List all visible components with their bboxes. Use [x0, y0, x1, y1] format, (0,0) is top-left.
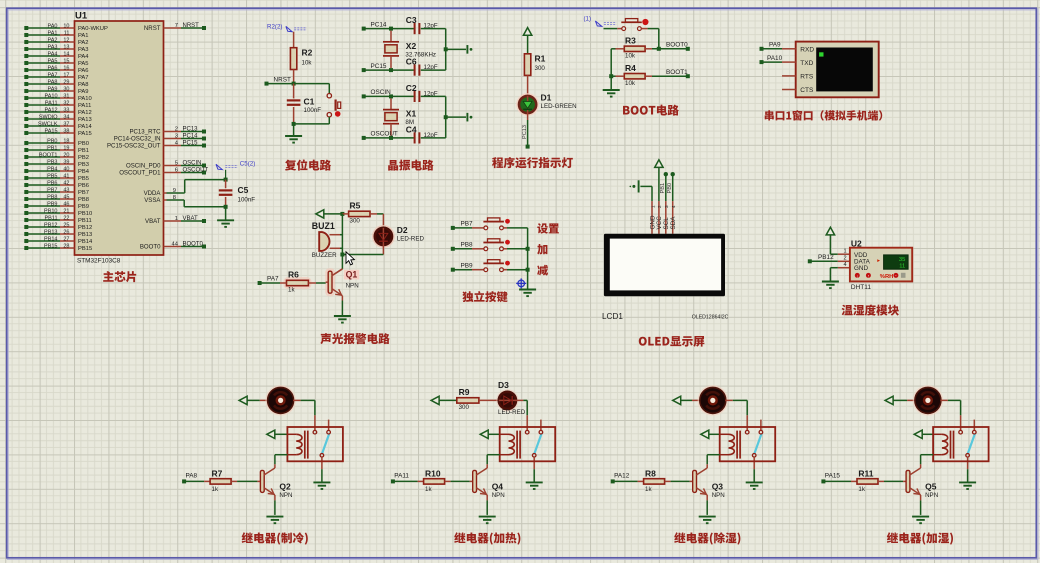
wire C5 top pin	[225, 180, 227, 189]
resistor R2	[290, 48, 296, 70]
svg-text:1k: 1k	[425, 486, 432, 493]
serial cursor	[819, 52, 823, 56]
key button PB9	[484, 268, 488, 272]
svg-text:PA0: PA0	[48, 23, 58, 29]
svg-text:PB8: PB8	[47, 194, 57, 200]
svg-text:OSCIN_PD0: OSCIN_PD0	[126, 163, 161, 170]
pin PA1 wire/label (pin 11)	[24, 33, 28, 37]
svg-text:PC14-OSC32_IN: PC14-OSC32_IN	[114, 136, 161, 143]
resistor R4	[624, 74, 645, 79]
ground below C1	[285, 135, 302, 137]
wire R10 to Q4 base	[445, 480, 451, 482]
svg-text:22: 22	[63, 215, 69, 221]
svg-text:PB3: PB3	[78, 162, 89, 168]
svg-text:NPN: NPN	[279, 492, 292, 499]
svg-text:10k: 10k	[302, 60, 313, 67]
svg-text:Q3: Q3	[712, 481, 724, 491]
power arrow Q4 coil row	[480, 430, 488, 438]
BOOT button	[622, 27, 626, 31]
svg-text:PB1: PB1	[660, 183, 666, 194]
wire C5 to ground	[225, 207, 227, 220]
svg-text:PB0: PB0	[78, 141, 89, 147]
pin NRST wire/label (pin 7)	[164, 27, 182, 29]
DHT button down	[866, 273, 871, 278]
svg-text:TXD: TXD	[800, 60, 813, 67]
title 程序运行指示灯	[492, 157, 573, 168]
wire motor to relay Q5	[940, 399, 948, 401]
svg-text:PB1: PB1	[47, 145, 57, 151]
svg-text:PA9: PA9	[78, 89, 89, 95]
svg-text:STM32F103C8: STM32F103C8	[77, 258, 121, 265]
svg-text:PA7: PA7	[48, 72, 58, 78]
wire probe to button	[604, 28, 618, 30]
ground below Q1	[334, 315, 351, 317]
svg-text:PB9: PB9	[47, 201, 57, 207]
svg-text:300: 300	[350, 217, 361, 224]
key function label 减	[537, 265, 548, 276]
svg-text:PB12: PB12	[44, 222, 57, 228]
pin PB1 wire/label (pin 19)	[24, 148, 28, 152]
svg-text:PB0: PB0	[47, 138, 57, 144]
wire alarm vertical rail	[341, 214, 343, 269]
node keys rail PB9	[526, 268, 530, 272]
wire button PB8 to rail	[504, 248, 507, 250]
wire PA7 to R6	[258, 281, 262, 285]
capacitor C1	[287, 99, 301, 101]
wire button to BOOT0 rail	[641, 28, 647, 30]
svg-text:U1: U1	[75, 11, 88, 22]
terminal PC13	[526, 145, 530, 149]
transistor Q1 highlight glow	[326, 269, 333, 295]
svg-text:BOOT0: BOOT0	[183, 242, 204, 248]
relay (继电器(制冷))	[314, 415, 316, 430]
svg-text:15: 15	[63, 58, 69, 64]
node X2 bottom junction	[389, 68, 393, 72]
wire D3 to relay	[516, 399, 523, 401]
ground DHT11	[822, 281, 839, 283]
pin VSSA wire (pin 8)	[164, 199, 167, 201]
svg-text:BOOT1: BOOT1	[666, 69, 688, 76]
svg-text:OLED12864I2C: OLED12864I2C	[692, 314, 729, 320]
wire R11 to Q5 base	[878, 480, 884, 482]
node X2 rail tee	[444, 47, 448, 51]
pin PC15 wire/label (pin 4)	[164, 145, 182, 147]
power arrow above R1	[523, 28, 531, 36]
crystal X1	[390, 98, 392, 109]
svg-text:BOOT0: BOOT0	[666, 42, 688, 49]
svg-text:18: 18	[63, 138, 69, 144]
wire D1 to PC13 terminal	[527, 113, 529, 120]
svg-text:PB14: PB14	[78, 239, 93, 245]
svg-text:PB6: PB6	[47, 180, 57, 186]
svg-text:PA15: PA15	[78, 131, 92, 137]
resistor R11	[857, 479, 878, 484]
motor load (继电器(除湿))	[698, 385, 728, 415]
crystal X2	[390, 31, 392, 42]
wire R1 to D1	[527, 75, 529, 96]
svg-text:2: 2	[175, 127, 178, 133]
pin PA9 wire/label (pin 30)	[24, 89, 28, 93]
wire Q1 emitter to ground	[341, 296, 343, 301]
wire PA10 to TXD	[760, 60, 764, 64]
ground tick X1	[466, 113, 468, 122]
buzzer bottom pin	[330, 247, 340, 249]
wire C1 to ground	[293, 124, 295, 135]
resistor R5	[349, 211, 370, 216]
svg-text:13: 13	[63, 44, 69, 50]
DHT gray icon	[901, 273, 906, 278]
wire PB9 to button	[451, 268, 455, 272]
svg-text:R3: R3	[625, 36, 636, 46]
wire button PB9 to rail	[504, 269, 507, 271]
pin BOOT0 wire/label (pin 44)	[164, 246, 182, 248]
capacitor C6	[414, 65, 416, 76]
svg-text:↑: ↑	[867, 273, 869, 278]
wire OLED GND pin	[640, 185, 652, 187]
wire C6 to right rail	[421, 69, 446, 71]
key function label 加	[537, 244, 547, 254]
wire motor to relay Q2	[293, 399, 301, 401]
svg-text:BOOT1: BOOT1	[39, 152, 58, 158]
transistor Q5	[906, 470, 910, 492]
node alarm mid junction	[340, 253, 344, 257]
svg-text:10k: 10k	[625, 80, 636, 87]
svg-text:33: 33	[63, 107, 69, 113]
pin PA6 wire/label (pin 16)	[24, 68, 28, 72]
svg-text:4: 4	[671, 205, 676, 208]
power arrow Q4 load row	[431, 396, 439, 404]
svg-text:PC13_RTC: PC13_RTC	[129, 129, 161, 136]
wire OLED SCL pin	[664, 172, 668, 176]
pin OSCIN wire/label (pin 5)	[164, 165, 182, 167]
svg-text:PA1: PA1	[48, 30, 58, 36]
serial window screen	[816, 48, 873, 92]
node X2 top junction	[389, 27, 393, 31]
DHT display	[884, 255, 909, 269]
svg-text:4: 4	[844, 262, 847, 268]
power arrow OLED VCC	[655, 160, 663, 168]
svg-text:PB14: PB14	[44, 236, 57, 242]
transistor Q3	[693, 470, 697, 492]
pin PA0 wire/label (pin 10)	[24, 26, 28, 30]
wire coil to Q2 collector	[275, 454, 288, 456]
title 声光报警电路	[320, 333, 389, 344]
pin PA8 wire/label (pin 29)	[24, 82, 28, 86]
svg-text:C1: C1	[304, 97, 315, 107]
svg-text:PA4: PA4	[48, 51, 58, 57]
svg-text:26: 26	[63, 229, 69, 235]
wire NRST horizontal	[265, 82, 269, 86]
voltage probe R2(2)	[286, 26, 292, 31]
svg-text:PA9: PA9	[48, 86, 58, 92]
pin PA5 wire/label (pin 15)	[24, 61, 28, 65]
wire keys vertical rail	[527, 228, 529, 289]
wire DHT GND pin	[838, 267, 850, 269]
svg-text:PC15-OSC32_OUT: PC15-OSC32_OUT	[107, 143, 161, 150]
wire Q3 emitter to ground	[706, 495, 708, 500]
svg-text:PB0: PB0	[667, 183, 673, 194]
svg-text:SWDIO: SWDIO	[39, 114, 58, 120]
svg-text:PB7: PB7	[461, 221, 474, 228]
wire R3 left pin	[616, 48, 625, 50]
svg-text:PA2: PA2	[78, 40, 89, 46]
wire PA9 to RXD	[760, 47, 764, 51]
title 继电器(制冷)	[242, 532, 308, 544]
pin PB3 wire/label (pin 39)	[24, 162, 28, 166]
wire relay common to ground	[967, 469, 969, 481]
pin PB6 wire/label (pin 42)	[24, 183, 28, 187]
svg-text:300: 300	[535, 65, 546, 72]
title 复位电路	[285, 159, 331, 170]
title BOOT电路	[623, 105, 679, 116]
svg-text:9: 9	[173, 188, 176, 194]
svg-text:PB13: PB13	[78, 232, 92, 238]
ground relay common (Q3)	[746, 481, 763, 483]
pin PA11 wire/label (pin 32)	[24, 103, 28, 107]
pin CTS stub	[782, 89, 796, 91]
svg-text:LED-GREEN: LED-GREEN	[541, 103, 577, 110]
svg-text:7: 7	[175, 23, 178, 29]
svg-text:PB8: PB8	[461, 242, 474, 249]
node NRST junction	[292, 82, 296, 86]
svg-text:1k: 1k	[288, 286, 295, 293]
svg-text:PB11: PB11	[78, 218, 92, 224]
svg-text:LCD1: LCD1	[602, 312, 623, 321]
svg-text:OSCOUT: OSCOUT	[371, 131, 398, 138]
node C1 bottom junction	[292, 122, 296, 126]
svg-text:PC15: PC15	[371, 63, 387, 70]
svg-text:1k: 1k	[858, 486, 865, 493]
svg-text:PB2: PB2	[78, 155, 89, 161]
pin SWDIO wire/label (pin 34)	[24, 117, 28, 121]
motor load (继电器(制冷))	[265, 385, 295, 415]
svg-text:PC13: PC13	[183, 127, 199, 133]
svg-text:PA14: PA14	[78, 124, 93, 130]
pin VDDA wire (pin 9)	[164, 192, 167, 194]
svg-text:PA12: PA12	[614, 473, 630, 480]
svg-text:PA3: PA3	[78, 47, 89, 53]
svg-text:PB11: PB11	[44, 215, 57, 221]
pin PA4 wire/label (pin 14)	[24, 54, 28, 58]
svg-text:RXD: RXD	[800, 47, 814, 54]
svg-text:PA12: PA12	[78, 110, 92, 116]
svg-text:1k: 1k	[212, 486, 219, 493]
power arrow alarm	[316, 210, 324, 218]
wire OLED SDA pin	[671, 172, 675, 176]
OLED LCD1 body	[604, 234, 725, 296]
svg-text:DHT11: DHT11	[851, 284, 871, 291]
capacitor C5	[219, 189, 233, 191]
svg-text:PC15: PC15	[183, 141, 199, 147]
svg-text:1: 1	[844, 248, 847, 254]
svg-text:NPN: NPN	[925, 492, 938, 499]
svg-text:D2: D2	[397, 225, 408, 235]
pin PB8 wire/label (pin 45)	[24, 197, 28, 201]
relay (继电器(除湿))	[746, 415, 748, 430]
svg-text:▸: ▸	[877, 258, 880, 264]
pin PB4 wire/label (pin 40)	[24, 169, 28, 173]
wire relay common to ground	[533, 469, 535, 481]
wire coil to Q5 collector	[921, 454, 934, 456]
svg-text:PB3: PB3	[47, 159, 57, 165]
resistor R8	[644, 479, 665, 484]
svg-text:PA10: PA10	[44, 93, 57, 99]
svg-text:%RH: %RH	[880, 274, 894, 280]
transistor Q2	[260, 470, 264, 492]
svg-text:31: 31	[63, 93, 69, 99]
pin PB15 wire/label (pin 28)	[24, 246, 28, 250]
svg-text:PA11: PA11	[78, 103, 91, 109]
terminal BOOT0	[686, 47, 690, 51]
wire DHT VDD pin	[830, 253, 837, 255]
capacitor C4	[414, 132, 416, 143]
svg-text:46: 46	[63, 201, 69, 207]
wire PC15 row	[362, 68, 366, 72]
svg-text:PA15: PA15	[44, 128, 57, 134]
ground BOOT circuit	[603, 89, 620, 91]
svg-text:39: 39	[63, 159, 69, 165]
svg-text:PC14: PC14	[183, 134, 199, 140]
svg-text:PA6: PA6	[48, 65, 58, 71]
title OLED显示屏	[639, 336, 705, 347]
svg-text:35: 35	[899, 257, 905, 263]
svg-text:OSCOUT_PD1: OSCOUT_PD1	[119, 170, 161, 177]
origin marker crosshair	[518, 280, 525, 287]
svg-text:PB5: PB5	[47, 173, 57, 179]
pin PB14 wire/label (pin 27)	[24, 239, 28, 243]
label Q1 highlighted	[344, 270, 359, 280]
svg-text:19: 19	[63, 145, 69, 151]
svg-text:VSSA: VSSA	[144, 197, 161, 204]
wire OLED VCC pin	[658, 167, 660, 201]
wire PA8 to R7	[182, 479, 186, 483]
wire Q5 emitter to ground	[920, 495, 922, 500]
wire R4 left pin	[616, 75, 625, 77]
svg-text:38: 38	[63, 128, 69, 134]
capacitor C2	[414, 91, 416, 102]
pin RTS stub	[782, 75, 796, 77]
wire OSCIN row	[362, 94, 366, 98]
svg-text:PA5: PA5	[48, 58, 58, 64]
svg-text:PB15: PB15	[44, 243, 57, 249]
svg-text:41: 41	[63, 173, 69, 179]
svg-text:300: 300	[459, 404, 470, 411]
svg-text:NPN: NPN	[492, 492, 505, 499]
key function label 设置	[537, 223, 559, 234]
ground relay common (Q4)	[526, 481, 543, 483]
svg-text:100nF: 100nF	[304, 107, 322, 114]
resistor R3	[624, 46, 645, 51]
pin PA12 wire/label (pin 33)	[24, 110, 28, 114]
LED D3 red	[496, 389, 518, 411]
svg-text:NPN: NPN	[712, 492, 725, 499]
svg-text:OSCIN: OSCIN	[371, 89, 392, 96]
svg-text:PB9: PB9	[461, 262, 474, 269]
voltage probe (1)	[595, 21, 601, 26]
pin PB0 wire/label (pin 18)	[24, 141, 28, 145]
DHT button up	[855, 273, 860, 278]
svg-text:OSCOUT: OSCOUT	[183, 168, 209, 174]
svg-text:5: 5	[175, 161, 178, 167]
svg-text:C2: C2	[406, 83, 417, 93]
pin PB7 wire/label (pin 43)	[24, 190, 28, 194]
voltage probe C5(2)	[216, 164, 222, 169]
svg-text:BUZZER: BUZZER	[312, 252, 337, 259]
wire relay common to ground	[753, 469, 755, 481]
wire relay common to ground	[321, 469, 323, 481]
svg-text:45: 45	[63, 194, 69, 200]
title 晶振电路	[388, 160, 433, 171]
ground relay common (Q2)	[313, 481, 330, 483]
wire OSCOUT row	[362, 136, 366, 140]
svg-text:3: 3	[175, 134, 178, 140]
svg-text:PB8: PB8	[78, 197, 89, 203]
title 串口1窗口（模拟手机端）	[765, 110, 883, 120]
wire Q2 emitter to ground	[274, 495, 276, 500]
svg-text:PA5: PA5	[78, 61, 89, 67]
svg-text:R1: R1	[535, 54, 546, 64]
mouse cursor	[346, 252, 354, 265]
wire to reset button	[328, 84, 330, 94]
svg-text:R9: R9	[459, 387, 470, 397]
title 主芯片	[103, 271, 136, 282]
wire PA15 to R11	[821, 479, 825, 483]
resistor R7	[210, 479, 231, 484]
svg-text:2: 2	[657, 205, 662, 208]
svg-text:R2(2): R2(2)	[267, 24, 282, 31]
svg-text:PA2: PA2	[48, 37, 58, 43]
key button PB8	[484, 247, 488, 251]
svg-text:PB10: PB10	[44, 208, 57, 214]
svg-text:40: 40	[63, 166, 69, 172]
svg-text:12: 12	[63, 37, 69, 43]
relay (继电器(加湿))	[960, 415, 962, 430]
ground Q5 emitter	[912, 516, 929, 518]
svg-text:PA10: PA10	[78, 96, 92, 102]
svg-text:PC14: PC14	[371, 21, 387, 28]
svg-text:28: 28	[63, 243, 69, 249]
svg-text:32: 32	[63, 100, 69, 106]
svg-text:VDDA: VDDA	[144, 190, 162, 197]
svg-text:(1): (1)	[584, 16, 592, 23]
svg-text:PA8: PA8	[78, 82, 89, 88]
pin PA15 wire/label (pin 38)	[24, 131, 28, 135]
node R4 left junction	[609, 74, 613, 78]
svg-text:42: 42	[63, 180, 69, 186]
pin PB11 wire/label (pin 22)	[24, 218, 28, 222]
svg-text:D3: D3	[498, 380, 509, 390]
wire R6 to Q1 base	[308, 282, 316, 284]
svg-text:29: 29	[63, 79, 69, 85]
svg-text:PC13: PC13	[522, 125, 528, 139]
wire C4 to right rail	[421, 137, 446, 139]
svg-text:10k: 10k	[625, 53, 636, 60]
svg-text:PA1: PA1	[78, 33, 89, 39]
wire coil to Q4 collector	[487, 454, 500, 456]
node X1 bottom junction	[389, 136, 393, 140]
wire D2 bottom pin	[382, 245, 384, 255]
svg-text:8: 8	[173, 195, 176, 201]
svg-text:PA7: PA7	[78, 75, 89, 81]
svg-text:R2: R2	[302, 48, 313, 58]
svg-text:1k: 1k	[645, 486, 652, 493]
svg-text:Q1: Q1	[346, 270, 358, 280]
power arrow Q3 coil row	[701, 430, 709, 438]
svg-text:↓: ↓	[856, 273, 858, 278]
svg-text:C5(2): C5(2)	[240, 160, 255, 167]
svg-text:1: 1	[650, 205, 655, 208]
wire R4 right pin	[645, 75, 652, 77]
